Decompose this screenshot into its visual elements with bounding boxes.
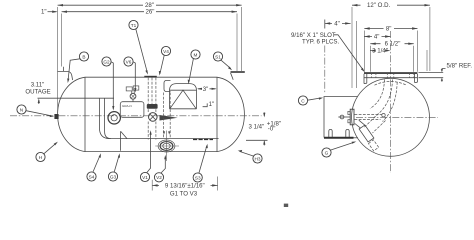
dimension 28": [58, 2, 242, 113]
slotted mounting rail top bar: [364, 72, 417, 83]
balloon C: [298, 96, 323, 105]
dip tube end elevation extension line: [246, 139, 268, 141]
internal gauge tube vertical drop: [99, 98, 111, 138]
hidden equalizing tube dashed pair: [164, 93, 171, 140]
bracket bolt slot right: [346, 129, 349, 137]
outage gauge line: [38, 97, 115, 99]
svg-text:12" O.D.: 12" O.D.: [367, 2, 390, 9]
bracket bolt slot left: [329, 129, 332, 137]
tiny arrow ticks above flange: [163, 131, 170, 134]
svg-text:3 1/4": 3 1/4": [372, 47, 388, 54]
left head tangent seam: [84, 77, 86, 151]
hidden tank surface arc under rail: [375, 81, 407, 85]
svg-text:3": 3": [203, 86, 209, 93]
balloon M: [188, 50, 200, 84]
flow direction solid arrow: [160, 115, 178, 121]
slot note text: [291, 32, 365, 72]
dimension 3 1/4 +1/8 -0 vertical: [249, 112, 282, 145]
left head top fitting pad: [57, 67, 72, 80]
dimension 8": [364, 25, 417, 71]
svg-text:G3: G3: [110, 174, 117, 179]
two small junction blocks: [126, 86, 139, 91]
dimension 6 1/2": [370, 41, 413, 72]
svg-text:V4: V4: [163, 49, 169, 54]
tank end circle: [352, 78, 430, 156]
svg-text:G1 TO V3: G1 TO V3: [170, 190, 198, 197]
svg-text:26": 26": [146, 9, 155, 16]
balloon V4: [159, 46, 171, 75]
svg-text:4": 4": [374, 33, 380, 40]
svg-text:9 13/16"±1/16": 9 13/16"±1/16": [165, 183, 205, 190]
svg-text:S4: S4: [89, 174, 95, 179]
svg-text:B: B: [82, 54, 85, 59]
protective dome with brace: [170, 84, 197, 109]
balloon S3: [193, 144, 208, 182]
balloon S1: [213, 52, 232, 70]
svg-text:OUTAGE: OUTAGE: [25, 89, 50, 96]
svg-text:S1: S1: [215, 54, 221, 59]
svg-text:4": 4": [334, 20, 340, 27]
liquid withdrawal valve on bracket: [338, 109, 382, 125]
callout 1" L-bracket: [203, 101, 215, 108]
internal pipe hidden elbow: [364, 80, 397, 134]
dimension 5/8" REF rail thickness: [419, 63, 473, 82]
handwheel circle with spokes: [149, 113, 158, 122]
svg-text:8": 8": [386, 25, 392, 32]
mounting bracket plate: [324, 97, 358, 138]
solid dip tube diagonal: [355, 120, 379, 151]
svg-text:3.11": 3.11": [31, 81, 45, 88]
svg-text:T1: T1: [131, 23, 137, 28]
balloon V6: [124, 57, 136, 93]
balloon V2: [154, 155, 166, 182]
liquid level gauge port on left head (N target): [54, 114, 58, 119]
right head top fitting pad: [231, 72, 245, 80]
junction dot on centerline: [382, 114, 385, 117]
balloon H: [36, 142, 58, 162]
dimension 4" to center: [364, 33, 390, 40]
balloon T1: [129, 20, 148, 74]
dimension 26": [62, 9, 237, 71]
right head tangent seam: [216, 77, 218, 151]
page mark: [284, 204, 288, 207]
outage note 3.11" OUTAGE: [25, 81, 50, 104]
svg-text:GRA-N: GRA-N: [122, 104, 132, 108]
bottom dimension 9 13/16: [152, 177, 217, 198]
svg-text:TYP. 6 PLCS.: TYP. 6 PLCS.: [302, 39, 339, 46]
dimension 1": [41, 8, 58, 15]
bottom flange fitting ellipses: [155, 140, 179, 152]
end view vertical centerline: [390, 31, 392, 173]
dimension 12" O.D.: [352, 2, 430, 88]
svg-text:1": 1": [41, 8, 47, 15]
balloon G2: [102, 57, 115, 111]
balloon B: [67, 52, 88, 83]
float gauge dial (double circle): [108, 112, 120, 124]
svg-text:3 1/4": 3 1/4": [249, 124, 265, 131]
svg-text:V1: V1: [142, 175, 148, 180]
svg-text:G2: G2: [103, 59, 110, 64]
horizontal centerline: [10, 115, 262, 117]
svg-text:G: G: [325, 150, 329, 155]
balloon N: [17, 105, 54, 117]
balloon V1: [140, 130, 151, 181]
balloon S4: [87, 153, 101, 181]
flange vertical centerline: [165, 131, 167, 162]
dimension 3 1/4": [370, 47, 390, 54]
pipe gusset triangle: [121, 131, 127, 151]
svg-text:H3: H3: [255, 156, 261, 161]
small valve circle with stem: [130, 90, 136, 102]
svg-text:1": 1": [209, 101, 215, 108]
balloon H3: [238, 150, 262, 163]
svg-text:V2: V2: [156, 175, 162, 180]
svg-text:M: M: [194, 52, 198, 57]
tank shell outline: [58, 77, 245, 151]
hidden fill column dashed lines: [148, 78, 156, 140]
svg-text:-0": -0": [268, 126, 276, 133]
svg-text:ACME: ACME: [148, 105, 156, 109]
data plate: [120, 102, 144, 118]
svg-text:H: H: [39, 155, 42, 160]
svg-text:S3: S3: [195, 175, 201, 180]
dimension 4" bracket offset: [325, 20, 351, 94]
balloon G: [322, 142, 356, 158]
balloon G3: [108, 153, 120, 181]
dip pipe strainer thick dashed segment: [193, 138, 213, 140]
svg-text:N: N: [20, 107, 23, 112]
svg-text:V6: V6: [126, 59, 132, 64]
multivalve mounting bar at tank top: [144, 76, 157, 78]
internal dip pipe horizontal: [108, 138, 219, 140]
end view horizontal centerline: [356, 116, 438, 118]
ACME filler valve (dark box): [147, 104, 158, 109]
dimension 3" dome to tangent: [197, 86, 217, 93]
svg-text:5/8" REF.: 5/8" REF.: [447, 63, 473, 70]
slot hidden lines (6 plcs): [372, 72, 414, 78]
relief valve bracket element: [164, 81, 171, 92]
